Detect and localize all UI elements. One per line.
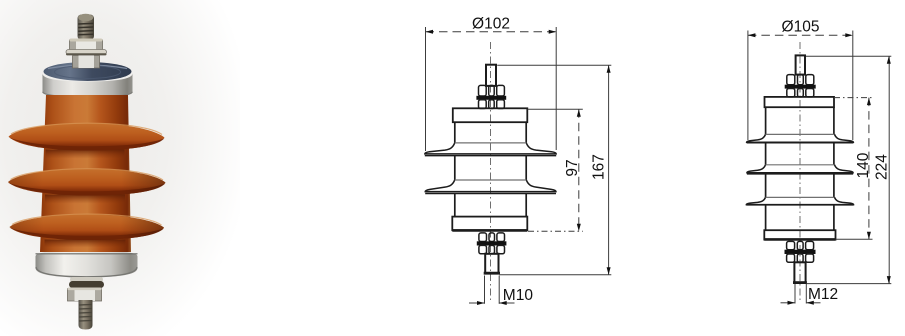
top nut row 1 xyxy=(787,75,814,85)
top stud xyxy=(486,65,496,86)
svg-text:M10: M10 xyxy=(503,287,534,304)
svg-text:140: 140 xyxy=(855,152,872,178)
bottom cap rectangle xyxy=(764,230,835,239)
dimension 167 xyxy=(497,65,611,275)
photo second hex nut on dome xyxy=(73,56,100,69)
shed 1 xyxy=(747,134,854,143)
photo bottom threaded stud xyxy=(79,300,93,330)
bottom washer band xyxy=(785,250,816,254)
dimension Ø102 xyxy=(426,27,557,151)
bottom washer band xyxy=(477,241,507,245)
svg-text:97: 97 xyxy=(564,159,581,176)
dimension 224 xyxy=(806,56,891,283)
dimension 140 xyxy=(834,98,873,240)
dimension M12 xyxy=(781,284,821,304)
photo bottom flange xyxy=(36,253,138,278)
svg-text:167: 167 xyxy=(591,154,608,180)
svg-text:224: 224 xyxy=(874,154,891,180)
bottom nut row 2 xyxy=(787,254,814,262)
bottom nut row 2 xyxy=(479,245,505,253)
top stud xyxy=(796,55,805,74)
shadow under rim on body xyxy=(46,96,128,102)
centerline xyxy=(799,42,801,302)
shed 2 xyxy=(747,165,853,174)
centerline xyxy=(490,42,492,302)
photo cap dome (dark top) xyxy=(44,62,132,81)
bottom stud xyxy=(485,254,498,273)
svg-text:Ø102: Ø102 xyxy=(472,16,510,33)
bottom cap rectangle xyxy=(452,217,527,231)
top washer band xyxy=(476,96,506,100)
shed 2 xyxy=(425,180,556,194)
photo aluminium rim cylinder xyxy=(43,74,133,98)
top nut row 1 xyxy=(479,85,505,96)
photo washer rings under flange xyxy=(69,277,104,288)
top washer band xyxy=(785,85,816,89)
svg-text:Ø105: Ø105 xyxy=(782,19,820,36)
photo top hex nut xyxy=(70,39,103,52)
bottom nut row 1 xyxy=(787,241,814,249)
photo shed 1 xyxy=(9,123,165,150)
photo bottom hex nut xyxy=(68,288,102,302)
svg-text:M12: M12 xyxy=(808,286,838,303)
bottom nut row 1 xyxy=(479,233,505,242)
shed 3 xyxy=(746,197,853,205)
photo shed 2 xyxy=(8,169,166,196)
dimension Ø105 xyxy=(748,31,853,141)
photo washer under nut xyxy=(66,50,107,56)
photo body trunk (continuous) xyxy=(40,95,131,252)
top cap rectangle xyxy=(765,97,835,107)
photo background xyxy=(0,0,240,336)
photo shed 3 xyxy=(10,214,165,240)
top nut row 2 xyxy=(787,89,814,97)
top nut row 2 xyxy=(479,100,505,109)
trunk shadow bands under sheds xyxy=(45,150,126,248)
dimension 97 xyxy=(528,109,583,231)
bottom stud xyxy=(794,262,805,282)
top cap rectangle xyxy=(453,108,528,122)
housing trunk outline xyxy=(766,107,834,230)
housing trunk outline xyxy=(455,122,526,216)
dimension M10 xyxy=(469,276,515,304)
shed 1 xyxy=(425,143,556,156)
